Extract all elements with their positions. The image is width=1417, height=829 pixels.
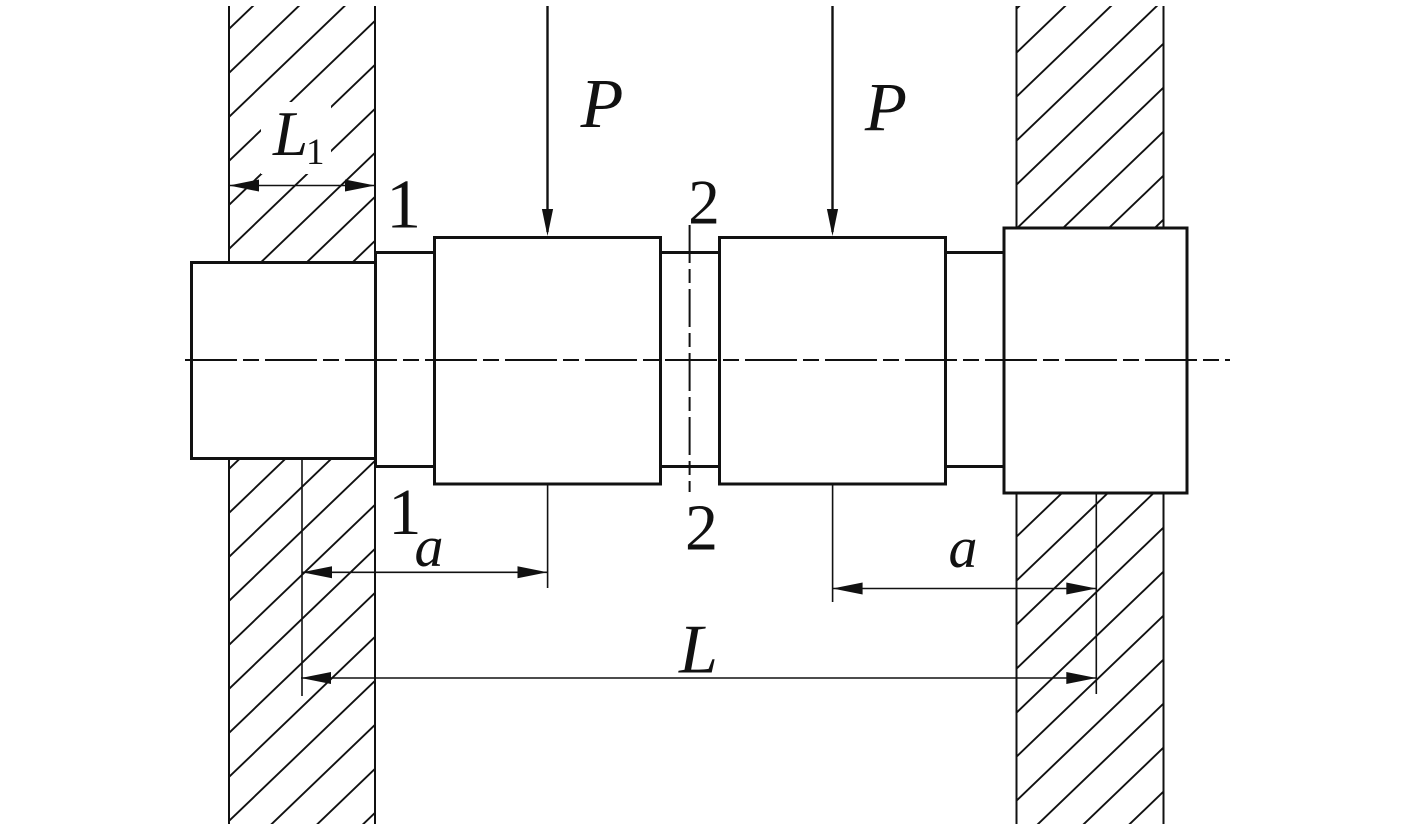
- svg-text:2: 2: [685, 492, 718, 565]
- svg-text:P: P: [580, 66, 624, 143]
- svg-text:1: 1: [386, 167, 421, 244]
- svg-text:a: a: [415, 514, 444, 579]
- svg-text:L: L: [678, 612, 718, 689]
- svg-text:P: P: [864, 69, 907, 145]
- svg-text:a: a: [949, 515, 978, 580]
- svg-text:2: 2: [688, 168, 720, 238]
